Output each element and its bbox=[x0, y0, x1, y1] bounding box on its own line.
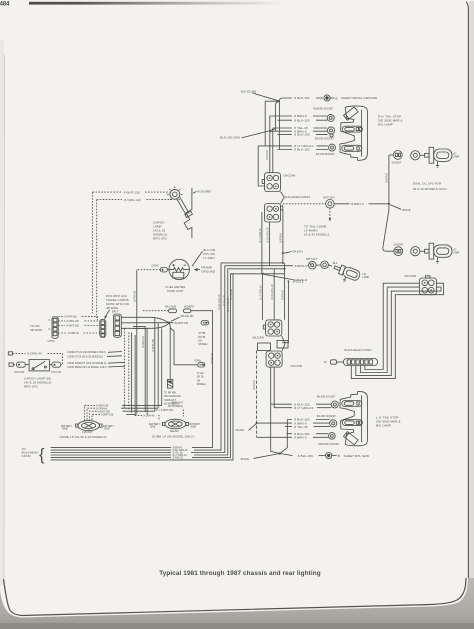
svg-text:.8 DK GRN-19: .8 DK GRN-19 bbox=[218, 294, 221, 310]
svg-text:LAMP: LAMP bbox=[453, 155, 460, 158]
svg-text:ST BR: ST BR bbox=[198, 332, 205, 335]
wire .8 BRN-9 (LH r4) bbox=[257, 421, 330, 425]
svg-text:DOME LP (06 MODEL ONLY): DOME LP (06 MODEL ONLY) bbox=[152, 434, 194, 438]
svg-text:B: B bbox=[336, 96, 338, 100]
connector plug dark bbox=[167, 379, 172, 388]
svg-text:484: 484 bbox=[0, 0, 10, 7]
svg-text:MODEL): MODEL) bbox=[197, 383, 207, 386]
wire pill2 riser bbox=[191, 311, 213, 448]
wire .8 BRN-9 row to lic lamps (y=203.8) bbox=[283, 202, 389, 206]
connector pill left of switch bbox=[9, 362, 29, 374]
wire vertical BLK trunk bbox=[277, 100, 279, 149]
wire .8 BRN-9 (tail r2) bbox=[269, 114, 327, 118]
wire bulkhead w3 bbox=[356, 287, 441, 376]
lamp assembly LIC1 bbox=[389, 147, 460, 167]
LH tail lamp housing U2 bbox=[340, 391, 368, 445]
label dual lic lps bbox=[413, 182, 448, 192]
wire .8 ORN-40 dome row2 bbox=[87, 407, 158, 421]
wire .8 BLK-150 (tail r3) bbox=[278, 118, 328, 122]
svg-text:.8 PNK-30: .8 PNK-30 bbox=[172, 456, 184, 459]
connector pills harness bbox=[143, 306, 195, 313]
svg-text:SPLICE B: SPLICE B bbox=[293, 280, 304, 283]
label harn ext bbox=[168, 401, 184, 408]
wire splice row s4 bbox=[230, 273, 284, 275]
wire .8 WHT-156 row3 bbox=[58, 325, 100, 328]
svg-text:TANK UNIT: TANK UNIT bbox=[167, 289, 184, 293]
svg-text:CONN: CONN bbox=[152, 265, 159, 268]
wire ground left leg bbox=[265, 101, 278, 146]
svg-text:SHEET MTL GRD: SHEET MTL GRD bbox=[344, 454, 370, 458]
label to bulkhead conn bbox=[22, 447, 40, 458]
node splice 156 bbox=[168, 315, 194, 324]
svg-text:W-BASE SOCKET: W-BASE SOCKET bbox=[314, 108, 334, 111]
svg-text:GM-CONN: GM-CONN bbox=[291, 365, 303, 368]
svg-text:BA-300 SOCKET: BA-300 SOCKET bbox=[317, 395, 336, 398]
wire YEL label left bbox=[0, 0, 1, 1]
bulb socket B1 bbox=[327, 114, 334, 121]
svg-text:.8 BRN-9: .8 BRN-9 bbox=[386, 172, 389, 183]
svg-text:.8 WHT-156: .8 WHT-156 bbox=[66, 325, 79, 328]
connector C5 bulkhead strip bbox=[344, 359, 378, 366]
label ST BR DP JB bbox=[198, 332, 208, 346]
svg-text:BATT SKT: BATT SKT bbox=[324, 197, 336, 200]
svg-text:CONN: CONN bbox=[48, 340, 55, 343]
svg-text:SPLICE A: SPLICE A bbox=[292, 250, 303, 253]
wire .8 BRN-9 (LH r7) bbox=[257, 436, 329, 440]
svg-text:W-203 BRKT: W-203 BRKT bbox=[198, 190, 213, 193]
svg-text:.8 BLK-150: .8 BLK-150 bbox=[294, 133, 310, 137]
wire .80 WHT-156 to ST BR jb bbox=[169, 322, 188, 325]
ground G3 frame bbox=[194, 265, 216, 273]
svg-text:RPO UF2: RPO UF2 bbox=[153, 237, 167, 241]
wire .8 WHT-156 dashed bbox=[92, 190, 169, 194]
wire fuel verticals down bbox=[136, 276, 138, 414]
label BLK-150 SM top leader bbox=[241, 90, 278, 100]
wire bundle row4 bbox=[51, 269, 228, 457]
label LH tail stop bbox=[376, 416, 401, 428]
svg-text:CONN (BRACKET 43 MODEL ONLY): CONN (BRACKET 43 MODEL ONLY) bbox=[67, 366, 107, 369]
lamp assembly LIC2 bbox=[394, 243, 460, 263]
svg-text:DRV ENDGATE: DRV ENDGATE bbox=[164, 395, 181, 398]
svg-text:SPLICE: SPLICE bbox=[236, 429, 245, 432]
bulb socket B5 bbox=[330, 420, 337, 427]
svg-text:.8 ORN-140: .8 ORN-140 bbox=[66, 320, 79, 323]
node splice D bbox=[241, 454, 280, 461]
svg-text:BATT SKT: BATT SKT bbox=[306, 258, 318, 261]
svg-text:GROUND SOCKET: GROUND SOCKET bbox=[318, 443, 340, 446]
svg-text:SOCKET: SOCKET bbox=[394, 244, 404, 247]
bulb socket B4 bbox=[331, 401, 338, 408]
svg-text:.8 BRN-9: .8 BRN-9 bbox=[253, 379, 256, 390]
connector sleeve rect B bbox=[277, 341, 288, 349]
connector stub left of bulkhead bbox=[324, 360, 344, 364]
label W/O RPO UF2 bbox=[104, 294, 129, 319]
node splice 24 bbox=[262, 273, 308, 282]
svg-text:RPO UF2: RPO UF2 bbox=[24, 385, 38, 389]
wire DK GRN below C2 bbox=[269, 222, 271, 266]
svg-text:{: { bbox=[39, 446, 45, 464]
socket S5 bbox=[321, 261, 338, 269]
svg-text:B/U LAMP: B/U LAMP bbox=[376, 424, 391, 428]
svg-text:SPLICE: SPLICE bbox=[402, 209, 411, 212]
switch SW1 cargo lamp bbox=[29, 360, 49, 371]
svg-text:GM-CONN: GM-CONN bbox=[252, 337, 264, 340]
svg-text:DUAL LIC LPS FOR: DUAL LIC LPS FOR bbox=[413, 182, 442, 186]
svg-text:SOCKET: SOCKET bbox=[392, 161, 402, 164]
wire .8 BLK-150 (LH r6) bbox=[287, 432, 329, 436]
fuel meter tank unit M1 bbox=[169, 259, 189, 279]
wire strip C row3 bbox=[121, 323, 169, 406]
connector sleeve rect A bbox=[258, 343, 271, 351]
svg-text:CONN: CONN bbox=[22, 454, 31, 458]
svg-text:.8 WHT-156: .8 WHT-156 bbox=[152, 339, 155, 352]
svg-text:.8 BRN-9: .8 BRN-9 bbox=[266, 149, 269, 160]
wire dashed vertical left pair bbox=[92, 192, 96, 318]
svg-text:JB WRG: JB WRG bbox=[106, 306, 119, 310]
svg-text:PIN CTR: PIN CTR bbox=[52, 371, 62, 374]
wire LT GRN below C2 bbox=[261, 212, 263, 274]
svg-text:BLK: BLK bbox=[333, 262, 338, 265]
svg-text:DP JB: DP JB bbox=[198, 336, 205, 339]
right page edge line bbox=[466, 2, 468, 578]
ground G1 sheet metal ground bbox=[324, 95, 378, 101]
svg-text:.8 WHT-156: .8 WHT-156 bbox=[64, 316, 77, 319]
wire .8 LT GRN-24 (LH r2) bbox=[274, 406, 331, 410]
svg-text:DOME LP (43,06 & 03 MODELS): DOME LP (43,06 & 03 MODELS) bbox=[60, 435, 107, 439]
wire bulkhead w2 bbox=[360, 287, 419, 372]
bottom page edge bbox=[4, 578, 467, 616]
svg-text:.8 BLK-150: .8 BLK-150 bbox=[297, 454, 313, 458]
wire splice row s3 bbox=[228, 268, 285, 270]
connector C6 (4-pin GM rear) bbox=[419, 276, 436, 295]
wire .8 WHT-156 dome row4 bbox=[92, 414, 137, 421]
svg-text:BA-15S SOCKET: BA-15S SOCKET bbox=[316, 153, 335, 156]
wire LT GRN down leg bbox=[258, 146, 264, 186]
svg-text:.8 DK GRN-19: .8 DK GRN-19 bbox=[266, 227, 269, 243]
svg-text:BA-15D SOCKET: BA-15D SOCKET bbox=[317, 415, 336, 418]
top scan bar bbox=[29, 2, 291, 5]
svg-text:.8 ORN-40: .8 ORN-40 bbox=[142, 336, 145, 348]
wire .8 BLK-150 ground (LH r8) bbox=[297, 454, 325, 458]
wire .8 YEL-18 (r4) bbox=[273, 126, 327, 130]
svg-text:HARN EXT: HARN EXT bbox=[171, 401, 184, 404]
wire .8 BLK-150 (LH r1) bbox=[271, 402, 332, 406]
connector C3 (4-pin GM) bbox=[263, 320, 282, 336]
svg-text:DP JB: DP JB bbox=[197, 376, 204, 379]
wire bundle row2 bbox=[51, 263, 221, 452]
lamp dome front bbox=[76, 421, 102, 431]
svg-text:BATT: BATT bbox=[112, 311, 118, 314]
svg-text:CONN: CONN bbox=[194, 359, 201, 362]
wire vertical BRN trunk bbox=[269, 116, 271, 173]
svg-text:.8 YEL-18: .8 YEL-18 bbox=[223, 295, 226, 306]
svg-text:.8 BRN-9: .8 BRN-9 bbox=[282, 289, 285, 300]
label to tail comb lp harn bbox=[304, 225, 329, 237]
RH tail lamp housing U1 bbox=[340, 106, 368, 160]
left page edge bbox=[0, 40, 4, 585]
label TO RR PNL bbox=[164, 391, 181, 405]
svg-text:PIN CTR: PIN CTR bbox=[15, 371, 25, 374]
wire .8 WHT-156 row1 bbox=[58, 316, 97, 320]
label cargo lamp bbox=[153, 221, 167, 241]
wire strip C row2 bbox=[121, 323, 169, 409]
svg-text:.8 PNK-30: .8 PNK-30 bbox=[230, 288, 233, 300]
svg-text:MODEL): MODEL) bbox=[198, 343, 208, 346]
svg-text:.8 ORN-40: .8 ORN-40 bbox=[143, 414, 155, 417]
wire splice down legs bbox=[169, 323, 197, 380]
node splice B bbox=[288, 280, 304, 283]
wire .8 BLK-150 (r8) bbox=[278, 148, 329, 152]
bulb socket B3 bbox=[329, 144, 336, 151]
lamp dome rear bbox=[163, 419, 189, 429]
svg-text:.8 DK GRN-19: .8 DK GRN-19 bbox=[271, 284, 274, 300]
bulb socket B6 bbox=[329, 433, 336, 440]
svg-text:.8 PNK-30: .8 PNK-30 bbox=[134, 290, 137, 302]
label fuel meter bbox=[166, 285, 187, 293]
wire vertical YEL trunk bbox=[272, 128, 274, 173]
label blu or ppl bbox=[192, 248, 216, 266]
svg-text:CONDUIT (03 VAN MODELS ONLY): CONDUIT (03 VAN MODELS ONLY) bbox=[67, 351, 106, 354]
label TO DR JB WRG bbox=[30, 324, 43, 332]
wire splice row s2 / .8 BRN-9 to lic sockets bbox=[225, 264, 309, 268]
svg-text:SPLICE: SPLICE bbox=[241, 458, 250, 461]
wire .8 ORN-140 dome row1 bbox=[85, 405, 162, 421]
wire .8 BLK-150 (r6) bbox=[278, 133, 328, 137]
wire .8 ORN-40 rear bbox=[135, 414, 159, 419]
wire strip C row1 to splice 156 bbox=[121, 317, 169, 411]
wire bulkhead w1 bbox=[365, 283, 420, 369]
lamp L3 side marker bbox=[331, 262, 361, 285]
wire .8 ORN-140 row2 bbox=[58, 320, 100, 323]
svg-text:.8 ORN-140: .8 ORN-140 bbox=[124, 198, 141, 202]
connector arrow ST BR bbox=[201, 321, 209, 325]
socket S4 (lic feed) bbox=[306, 258, 321, 269]
svg-text:CONN SOMETH (43 & 06 MODELS): CONN SOMETH (43 & 06 MODELS) bbox=[67, 362, 106, 365]
svg-text:B/U LAMP: B/U LAMP bbox=[378, 123, 393, 127]
svg-text:W-PLUGGED CONN(?): W-PLUGGED CONN(?) bbox=[285, 196, 311, 199]
connector strip A bbox=[48, 317, 59, 343]
node splice A bbox=[282, 250, 303, 254]
connector pill fuel bbox=[152, 265, 170, 272]
svg-text:GROUND: GROUND bbox=[201, 269, 216, 273]
connector C2 (4-pin GM) bbox=[265, 204, 283, 223]
svg-text:03 & 43 MODELS ONLY: 03 & 43 MODELS ONLY bbox=[413, 187, 448, 191]
ground G2 sheet metal bbox=[326, 453, 370, 459]
svg-text:.8 BRN-9: .8 BRN-9 bbox=[294, 436, 307, 440]
node splice C bbox=[236, 424, 257, 433]
connector strip B bbox=[100, 320, 106, 338]
svg-text:.8 BLK-150: .8 BLK-150 bbox=[294, 148, 310, 152]
wire mating diagonals C1-C2 bbox=[281, 192, 285, 204]
wire conduit dashed pair bbox=[124, 329, 128, 410]
svg-text:LAMP: LAMP bbox=[453, 251, 460, 254]
connector arrow LT GN bbox=[194, 359, 205, 367]
wire .8 ORN-40 to switch bbox=[8, 352, 62, 365]
label LT GN DP JB bbox=[197, 372, 207, 386]
svg-text:.8 ORN-40: .8 ORN-40 bbox=[27, 352, 42, 356]
svg-text:SPLICE 156: SPLICE 156 bbox=[180, 315, 194, 318]
svg-text:CONDUIT 06 (43 & 06 MODELS): CONDUIT 06 (43 & 06 MODELS) bbox=[67, 355, 103, 358]
connector C4 (4-pin GM) bbox=[266, 351, 282, 367]
bulb socket B2 bbox=[327, 127, 334, 137]
wire BRN down to C3 bbox=[262, 263, 284, 320]
wire bulkhead w4 bbox=[351, 283, 443, 378]
wire splice row s1 bbox=[221, 262, 283, 264]
wire .8 ORN-140 dashed bbox=[97, 198, 173, 202]
svg-text:.8 WHT-156: .8 WHT-156 bbox=[160, 409, 173, 412]
wire drop to tail lp harn bbox=[329, 208, 331, 221]
wire .8 ORN-40 row4 bbox=[58, 332, 100, 335]
label cargo lamp sw bbox=[24, 377, 51, 389]
svg-text:.80 WHT-156: .80 WHT-156 bbox=[174, 322, 189, 325]
svg-text:LAMP: LAMP bbox=[363, 276, 370, 279]
wire bundle row1 bbox=[51, 447, 213, 450]
label RH tail stop bbox=[378, 115, 403, 127]
wire ground collect loop bbox=[271, 404, 293, 455]
svg-text:SOMETH: SOMETH bbox=[184, 306, 195, 309]
svg-text:.8 BLK-150: .8 BLK-150 bbox=[294, 118, 310, 122]
svg-text:.8 BRN-9: .8 BRN-9 bbox=[280, 232, 283, 243]
svg-text:SHEET METAL GROUND: SHEET METAL GROUND bbox=[341, 96, 378, 100]
svg-text:TO RR PNL: TO RR PNL bbox=[164, 391, 177, 394]
svg-text:.8 YEL-18: .8 YEL-18 bbox=[294, 425, 308, 429]
wire lic trunk vertical bbox=[383, 155, 394, 251]
svg-text:BLK-150 (SM): BLK-150 (SM) bbox=[220, 135, 240, 139]
svg-text:B: B bbox=[338, 454, 340, 458]
svg-text:SIDE: SIDE bbox=[191, 426, 197, 429]
connector pill right of switch bbox=[49, 362, 61, 374]
lamp cargo bulb bbox=[167, 187, 192, 218]
svg-text:REAR: REAR bbox=[170, 429, 179, 433]
svg-text:.8 LT GRN-24: .8 LT GRN-24 bbox=[294, 406, 314, 410]
svg-text:.8 ORN-40: .8 ORN-40 bbox=[67, 332, 79, 335]
svg-text:.8 PNK-30: .8 PNK-30 bbox=[211, 352, 214, 364]
svg-text:(06 MODELS): (06 MODELS) bbox=[168, 405, 183, 408]
svg-text:.8 WHT-156: .8 WHT-156 bbox=[101, 414, 114, 417]
svg-text:.8 WHT-156: .8 WHT-156 bbox=[123, 190, 140, 194]
wire splice B loop bbox=[282, 281, 288, 342]
svg-text:.8 LT GRN-24: .8 LT GRN-24 bbox=[259, 285, 262, 300]
wire bundle row3 bbox=[51, 266, 225, 455]
svg-text:Typical 1981 through 1987 chas: Typical 1981 through 1987 chassis and re… bbox=[159, 570, 321, 577]
label conduit block bbox=[67, 351, 125, 369]
svg-text:.8 BRN-9: .8 BRN-9 bbox=[294, 264, 307, 268]
wire .8 LT GRN-24 (r7) bbox=[258, 144, 328, 148]
connector C1 (4-pin GM) bbox=[262, 173, 280, 192]
connector strip C bbox=[112, 311, 121, 338]
svg-text:SIDE: SIDE bbox=[104, 427, 110, 430]
label BLK-150 leader low bbox=[220, 128, 275, 139]
wire BRN below C2 bbox=[282, 210, 284, 263]
svg-text:BULKHEAD CONN: BULKHEAD CONN bbox=[345, 348, 372, 352]
svg-text:.8 BLK-150: .8 BLK-150 bbox=[294, 96, 310, 100]
wire fuel pill to left bbox=[137, 269, 161, 271]
wire bundle row6 bbox=[51, 274, 233, 460]
svg-text:JB WRG: JB WRG bbox=[30, 328, 43, 332]
wire .8 YEL-18 (LH r5) bbox=[285, 425, 330, 429]
wire mating C3-C4 bbox=[282, 336, 285, 351]
wire trunk inner leg bbox=[275, 101, 278, 131]
svg-text:GM-CONN: GM-CONN bbox=[405, 275, 417, 278]
cargo lamp bracket bbox=[184, 188, 192, 238]
wire .8 BLK-150 (LH r3) bbox=[287, 418, 329, 422]
wire .8 BLK-150 to sheet metal ground bbox=[279, 96, 322, 101]
svg-text:SIDE: SIDE bbox=[150, 426, 156, 429]
svg-text:LT GN: LT GN bbox=[197, 372, 204, 375]
svg-text:FRONT: FRONT bbox=[82, 430, 93, 434]
svg-text:GM-CONN: GM-CONN bbox=[284, 175, 296, 178]
svg-text:BLK-150 (SM): BLK-150 (SM) bbox=[241, 90, 256, 93]
svg-text:SIDE: SIDE bbox=[62, 427, 68, 430]
wire .8 WHT-156 rear bbox=[156, 409, 183, 416]
svg-text:BA-CONN: BA-CONN bbox=[165, 306, 176, 309]
svg-text:LT GRN: LT GRN bbox=[203, 256, 214, 260]
svg-text:.8 BRN-9: .8 BRN-9 bbox=[351, 202, 364, 206]
wire bundle row5 bbox=[51, 274, 231, 460]
wire .8 WHT-156 dome row3 bbox=[90, 410, 155, 421]
svg-text:03 & 43 MODELS: 03 & 43 MODELS bbox=[304, 233, 329, 237]
wire C4 down to LH rows bbox=[271, 367, 275, 408]
svg-text:W-: W- bbox=[324, 361, 327, 364]
wire BRN-9 left vertical bbox=[253, 351, 258, 438]
svg-text:BA-15D SOCKET: BA-15D SOCKET bbox=[315, 138, 334, 141]
label brkt bbox=[193, 190, 212, 193]
wire .8 BRN-9 (r5) bbox=[269, 129, 327, 133]
svg-text:.8 LT GRN-24: .8 LT GRN-24 bbox=[259, 228, 262, 243]
socket S6 bbox=[324, 197, 336, 209]
wire mid verticals bbox=[132, 333, 136, 415]
node splice lic bbox=[390, 205, 411, 212]
